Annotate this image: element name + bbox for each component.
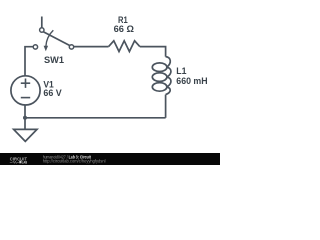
svg-text:LAB: LAB xyxy=(22,160,28,164)
wire bottom rail xyxy=(25,117,166,119)
wire switch top stub xyxy=(41,17,43,28)
watermark bar xyxy=(0,153,220,165)
CircuitLab logo zigzag xyxy=(10,161,19,163)
switch terminal right xyxy=(69,45,73,49)
junction node xyxy=(23,116,27,120)
svg-text:L1: L1 xyxy=(176,66,186,76)
wire inductor bottom to bottom rail xyxy=(165,95,167,118)
switch SW1 blade xyxy=(43,32,69,46)
inductor L1 xyxy=(152,57,171,95)
V1 plus sign xyxy=(21,79,30,88)
wire switch right terminal to resistor xyxy=(74,46,109,48)
svg-text:http://circuitlab.com/c/heyyhg: http://circuitlab.com/c/heyyhgfydsnl xyxy=(43,158,106,163)
resistor R1 xyxy=(109,41,140,52)
switch terminal top xyxy=(40,28,44,32)
wire resistor to top-right corner xyxy=(140,47,166,57)
V1 minus sign xyxy=(21,97,30,99)
switch actuation arrow xyxy=(46,30,53,46)
wire V1 bottom to ground xyxy=(24,105,26,130)
CircuitLab logo LAB block xyxy=(19,161,21,164)
svg-text:660 mH: 660 mH xyxy=(176,76,207,86)
ground xyxy=(14,129,37,141)
svg-text:SW1: SW1 xyxy=(44,55,64,65)
svg-text:66 V: 66 V xyxy=(43,88,61,98)
svg-text:66 Ω: 66 Ω xyxy=(114,24,134,34)
wire from switch left terminal to left rail and down to V1 xyxy=(25,47,33,76)
voltage source V1 body xyxy=(11,76,40,105)
switch arrow head xyxy=(44,46,49,52)
switch terminal left xyxy=(33,45,37,49)
